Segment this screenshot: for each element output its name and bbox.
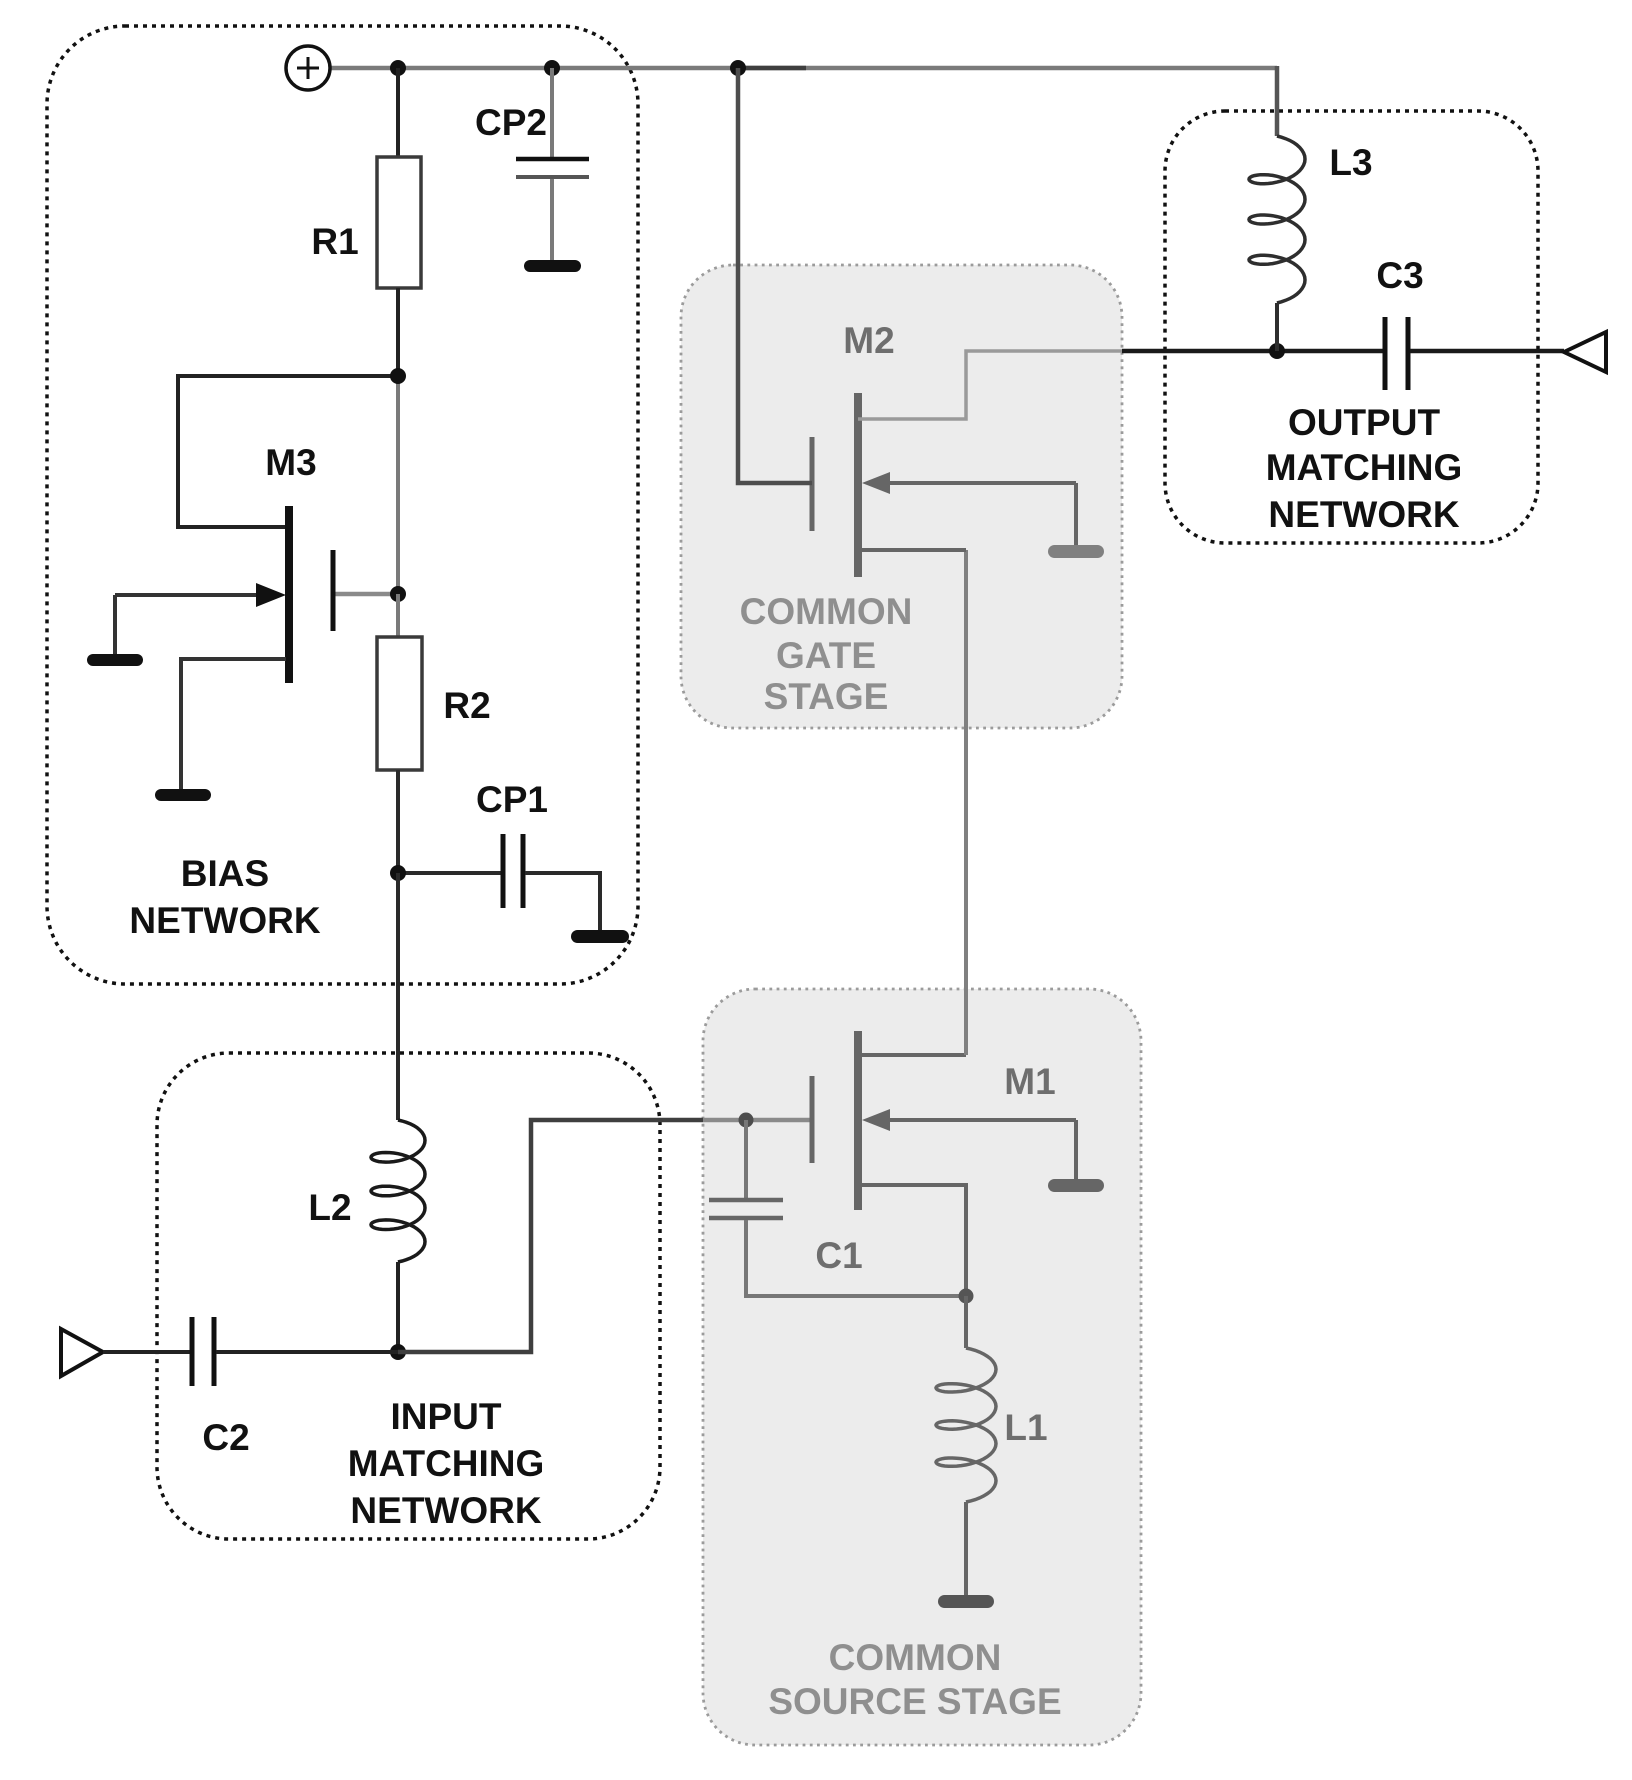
node supply/CP2 <box>544 60 560 76</box>
svg-text:INPUT: INPUT <box>391 1396 502 1437</box>
svg-text:NETWORK: NETWORK <box>1268 494 1459 535</box>
transistor M2 <box>812 320 1076 577</box>
ground (L1) <box>938 1595 994 1608</box>
capacitor C2 <box>192 1317 250 1458</box>
wire supply to R1 <box>396 68 400 157</box>
svg-text:M1: M1 <box>1004 1061 1055 1102</box>
wire CP1 node to L2 <box>396 873 400 1120</box>
wire M3 drain loop <box>178 376 398 527</box>
wire R2 to CP1 node <box>396 770 400 873</box>
node M3 drain <box>390 368 406 384</box>
node M3 gate <box>390 586 406 602</box>
common source stage box <box>703 989 1141 1745</box>
svg-text:OUTPUT: OUTPUT <box>1288 402 1441 443</box>
resistor R2 <box>377 637 422 770</box>
wire L2 to input node <box>396 1262 400 1352</box>
svg-text:COMMON: COMMON <box>829 1637 1002 1678</box>
node M1 gate / C1 <box>739 1113 754 1128</box>
input port <box>61 1329 103 1376</box>
svg-text:BIAS: BIAS <box>181 853 269 894</box>
ground (M1 bulk) <box>1074 1120 1078 1180</box>
ground (M3 bulk) <box>113 595 117 655</box>
node supply/R1 <box>390 60 406 76</box>
wire drain node to gate node <box>396 376 400 594</box>
svg-text:M2: M2 <box>843 320 894 361</box>
wire M3 gate <box>333 592 398 597</box>
svg-text:MATCHING: MATCHING <box>348 1443 545 1484</box>
svg-text:R2: R2 <box>443 685 490 726</box>
svg-text:C1: C1 <box>815 1235 862 1276</box>
ground (CP1) <box>571 930 629 943</box>
svg-text:STAGE: STAGE <box>764 676 889 717</box>
svg-text:M3: M3 <box>265 442 316 483</box>
capacitor C3 <box>1376 255 1423 390</box>
resistor R1 <box>377 157 421 288</box>
wire supply to L3 <box>1275 66 1280 136</box>
common gate stage box <box>681 265 1122 728</box>
ground (M2 bulk) <box>1074 483 1078 546</box>
inductor L3 <box>1249 136 1305 303</box>
capacitor CP2 <box>475 68 589 261</box>
ground (M3 source) <box>155 789 211 801</box>
wire input node to M1 gate <box>398 1120 703 1352</box>
wire C3 to output port <box>1410 349 1564 354</box>
node L3 / C3 <box>1269 343 1285 359</box>
wire supply rail <box>330 66 1277 71</box>
wire M2 gate <box>738 68 812 483</box>
output port <box>1564 332 1606 372</box>
ground (CP2) <box>524 260 581 272</box>
capacitor CP1 <box>398 779 600 931</box>
svg-text:COMMON: COMMON <box>740 591 913 632</box>
svg-text:L1: L1 <box>1004 1407 1047 1448</box>
inductor L2 <box>371 1120 425 1262</box>
svg-text:C2: C2 <box>202 1417 249 1458</box>
wire M2 drain to output <box>858 351 1122 419</box>
wire L3 to node <box>1275 303 1279 351</box>
wire input port to C2 <box>103 1350 190 1354</box>
capacitor C1 <box>709 1120 966 1296</box>
svg-text:C3: C3 <box>1376 255 1423 296</box>
node supply/M2 gate <box>730 60 746 76</box>
svg-text:R1: R1 <box>311 221 358 262</box>
wire gate node to R2 <box>396 594 400 637</box>
wire M1 drain <box>858 1053 966 1057</box>
transistor M1 <box>812 1031 1076 1210</box>
bias network box <box>47 26 638 984</box>
wire M3 source <box>181 659 286 790</box>
wire M2 source to M1 drain <box>964 550 968 1055</box>
input matching network box <box>157 1053 660 1539</box>
wire C2 to input node <box>216 1350 398 1354</box>
svg-text:L2: L2 <box>308 1187 351 1228</box>
svg-text:NETWORK: NETWORK <box>129 900 320 941</box>
wire M1 source <box>858 1185 966 1296</box>
power supply V+ <box>286 46 330 90</box>
svg-text:L3: L3 <box>1329 142 1372 183</box>
node M1 source / C1 / L1 <box>959 1289 974 1304</box>
transistor M3 <box>115 442 333 683</box>
node CP1 <box>390 865 406 881</box>
svg-text:NETWORK: NETWORK <box>350 1490 541 1531</box>
svg-text:SOURCE STAGE: SOURCE STAGE <box>768 1681 1061 1722</box>
svg-text:MATCHING: MATCHING <box>1266 447 1463 488</box>
wire M2 source <box>858 548 966 552</box>
svg-text:CP2: CP2 <box>475 102 547 143</box>
wire R1 to drain node <box>396 288 400 376</box>
output matching network box <box>1165 111 1538 543</box>
svg-text:GATE: GATE <box>776 635 876 676</box>
inductor L1 <box>964 1296 968 1348</box>
node input <box>390 1344 406 1360</box>
svg-text:CP1: CP1 <box>476 779 548 820</box>
